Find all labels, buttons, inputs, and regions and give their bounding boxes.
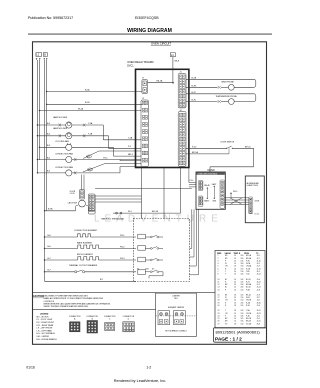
wire W-1A to connector J2 [39,107,142,111]
wire table [215,251,265,329]
bottom section divider [33,292,216,294]
svg-text:B-7D: B-7D [192,100,197,102]
svg-text:20: 20 [234,300,236,302]
connector J4 strip [178,110,186,166]
svg-text:J9-6: J9-6 [257,305,260,307]
svg-text:J8-11: J8-11 [257,313,261,315]
svg-text:BR-1A: BR-1A [246,254,252,257]
touch board connector [249,197,253,214]
UI connector P8 [198,181,203,191]
svg-text:Y-1B: Y-1B [88,134,93,136]
relay K1 [120,234,163,239]
riser board to relay section [163,168,165,219]
svg-text:3: 3 [218,260,219,262]
oven relay board label [127,60,153,67]
meat probe loop [186,76,256,90]
limiter block right [174,311,186,325]
svg-text:B-7A: B-7A [48,208,53,211]
connector C [104,316,116,331]
svg-text:LEGEND: LEGEND [40,313,49,315]
svg-text:P-10: P-10 [190,180,194,182]
svg-text:18: 18 [218,300,220,302]
outer frame [33,42,267,345]
cooling fan [39,140,142,156]
door switch circuit [186,142,254,172]
svg-text:TEMPERATURE PROBE: TEMPERATURE PROBE [216,95,238,98]
svg-text:RELAY: RELAY [204,184,210,187]
svg-text:150: 150 [241,300,244,302]
UI connector J10 [220,180,224,208]
svg-text:VERIFY PROPER OPERATION AFTER: VERIFY PROPER OPERATION AFTER SERVICING. [44,305,89,308]
connector J1 strip [178,72,186,108]
svg-text:BL-5D: BL-5D [246,287,252,289]
door lock feed wires [82,175,85,190]
svg-text:OVEN CIRCUIT: OVEN CIRCUIT [151,42,171,46]
svg-text:OR-7A: OR-7A [246,312,252,315]
svg-text:LAMP HOLDER: LAMP HOLDER [53,116,68,119]
UI to touch board wires [224,198,248,205]
svg-text:LIMITER: LIMITER [172,295,180,297]
svg-text:BR-4A: BR-4A [246,257,252,260]
svg-text:MO. - MOTOR: MO. - MOTOR [37,316,50,318]
svg-text:23: 23 [218,313,220,315]
svg-text:13: 13 [218,287,220,289]
oven relay board U1 [136,69,189,167]
title rule [28,33,272,35]
svg-text:16: 16 [234,260,236,262]
caution/legend divider [33,309,156,311]
svg-text:809126501 (A00960601): 809126501 (A00960601) [216,330,261,335]
svg-text:T.B.D.: T.B.D. [174,298,179,300]
svg-text:THERMAL CUTOUT BREAKER: THERMAL CUTOUT BREAKER [69,264,98,267]
terminal L1 [170,53,180,83]
svg-text:LOCK: LOCK [70,193,76,195]
svg-text:BP-1A: BP-1A [192,151,198,154]
bus wire B b [46,60,48,211]
svg-text:105: 105 [241,274,244,276]
svg-text:OR-7B: OR-7B [246,300,252,302]
svg-text:DISCONNECT POWER BEFORE SERVIC: DISCONNECT POWER BEFORE SERVICING UNIT. [44,295,89,297]
power relay dashed box [133,219,189,282]
connector J2 strip [141,98,148,166]
svg-text:GY-2: GY-2 [88,169,92,171]
door latch wires to riser [95,196,141,202]
terminal B [43,53,47,60]
temperature probe loop [186,92,256,105]
svg-text:PAGE : 1 / 2: PAGE : 1 / 2 [215,337,242,343]
svg-text:J2-8: J2-8 [257,289,260,291]
svg-text:CONVECTION FAN: CONVECTION FAN [55,153,73,156]
svg-text:LAMP HOLDER: LAMP HOLDER [53,127,68,130]
svg-text:B-7B: B-7B [192,85,197,87]
touch board labels [255,200,260,215]
svg-text:18: 18 [234,305,236,307]
svg-text:20: 20 [234,313,236,315]
limiter block left [158,311,170,325]
connector A [69,316,81,332]
svg-text:BAKE ELEMENT: BAKE ELEMENT [77,241,93,244]
node W-10 [230,191,237,198]
svg-text:01/16: 01/16 [26,366,35,370]
svg-text:Publication No: 5995672317: Publication No: 5995672317 [28,16,73,20]
svg-text:WIRING ERRORS CAN CAUSE IMPROP: WIRING ERRORS CAN CAUSE IMPROPER AND DAN… [44,303,111,306]
svg-text:J6-12: J6-12 [257,274,261,276]
thermal cutout breaker [44,264,136,273]
svg-text:8: 8 [218,274,219,276]
svg-text:L.F. - LEFT FRONT: L.F. - LEFT FRONT [37,328,54,330]
svg-text:150: 150 [241,313,244,315]
svg-text:R.F. - RIGHT FRONT: R.F. - RIGHT FRONT [37,322,55,324]
convection fan 2 [37,164,142,176]
svg-text:K5: K5 [152,268,154,270]
svg-text:LABEL ALL WIRES PRIOR TO DISCO: LABEL ALL WIRES PRIOR TO DISCONNECTION W… [44,297,104,300]
svg-text:OVEN RELAY BOARD: OVEN RELAY BOARD [127,60,153,64]
oven user interface U2 [196,172,225,209]
svg-text:CONVECTION FAN: CONVECTION FAN [55,166,73,169]
svg-text:NANO: NANO [204,199,210,202]
riser J2 to relay section [141,168,143,219]
svg-text:CN 5B: CN 5B [255,200,260,202]
svg-text:20: 20 [218,305,220,307]
limiter box [156,293,197,336]
svg-text:B-1A: B-1A [85,88,90,91]
lamp oven 1 [37,116,142,140]
broil element [44,254,136,261]
nano board wires down [190,209,199,274]
svg-text:B.B. - BODGE BRANCH: B.B. - BODGE BRANCH [37,338,58,341]
door lock connector [79,190,84,199]
svg-text:150: 150 [241,323,244,325]
svg-text:16: 16 [234,274,236,276]
lamp oven 2 [37,127,142,148]
svg-text:LATCH SW: LATCH SW [68,202,77,205]
UI connector P9 [198,196,203,207]
svg-text:150: 150 [241,289,244,291]
convection fan [37,151,142,163]
svg-text:L.R. - LEFT REAR: L.R. - LEFT REAR [37,329,53,332]
svg-text:14: 14 [234,289,236,291]
svg-text:B-7C: B-7C [192,92,197,94]
svg-text:Y-1A: Y-1A [128,137,133,140]
bottom return wire [45,279,137,281]
svg-text:J8-8: J8-8 [257,323,260,325]
fan hold thermostat [102,168,181,221]
UI wires to relay board [189,168,196,187]
svg-text:DOOR SWITCH: DOOR SWITCH [221,142,235,144]
svg-text:K4: K4 [137,268,139,270]
svg-text:J2: J2 [142,98,144,100]
door latch connector P5 [88,194,95,214]
convection element [44,230,136,238]
door lock labels [68,191,77,205]
svg-text:OR-3A: OR-3A [246,265,252,268]
svg-text:BR-8A: BR-8A [246,283,252,286]
svg-text:BK-7A: BK-7A [152,210,158,213]
svg-text:J1-10: J1-10 [257,260,261,262]
part number box [214,328,267,343]
svg-text:27: 27 [218,323,220,325]
svg-text:MEAT PROBE: MEAT PROBE [222,80,235,83]
svg-text:R.R. - RIGHT REAR: R.R. - RIGHT REAR [37,324,54,327]
svg-text:OVEN USER INTERFACE: OVEN USER INTERFACE [197,172,218,175]
svg-text:14: 14 [234,287,236,289]
connector J7 [142,78,174,94]
connector B [86,316,98,333]
svg-text:HOT SURFACE CONTACT: HOT SURFACE CONTACT [165,329,188,332]
svg-text:CONVECTION ELEMENT: CONVECTION ELEMENT [74,230,98,232]
svg-text:1-2: 1-2 [146,366,151,370]
svg-text:J7: J7 [142,78,144,80]
door section bottom wire [44,208,95,212]
svg-text:14: 14 [218,289,220,291]
svg-text:LIM. - LIMITER: LIM. - LIMITER [37,336,50,338]
svg-text:B-1B: B-1B [85,102,90,104]
svg-text:18: 18 [234,323,236,325]
svg-text:ELEMENT LIMITER: ELEMENT LIMITER [168,307,185,309]
svg-text:BL: BL [225,287,227,289]
aluminum glass touch board U3 [245,176,264,223]
bake element [44,241,136,249]
svg-text:200: 200 [241,287,244,289]
svg-text:Rendered by LeadVenture, Inc.: Rendered by LeadVenture, Inc. [114,379,167,383]
svg-text:Y-1A: Y-1A [88,122,93,125]
relay K3 [120,257,163,262]
UI internal labels [204,183,217,203]
connector D [123,316,135,332]
wire B-1A to relay board [46,88,142,92]
caution note [33,295,111,308]
svg-text:BROIL ELEMENT: BROIL ELEMENT [77,254,94,256]
svg-text:DVC1: DVC1 [127,64,134,67]
svg-text:UART: UART [212,183,217,186]
relay K2 [120,246,163,251]
bus wire B a [44,60,46,281]
svg-text:WIRING DIAGRAM: WIRING DIAGRAM [127,28,172,34]
svg-text:EI30EF4CQSB: EI30EF4CQSB [135,16,159,20]
terminal L2(N) [36,53,42,60]
svg-text:FAN HOLD THERMOSTAT: FAN HOLD THERMOSTAT [102,217,126,220]
svg-text:H.S. - HOT SURFACE: H.S. - HOT SURFACE [37,332,56,335]
svg-text:COOLING FAN: COOLING FAN [55,140,69,143]
bus wire L2 a [36,60,38,173]
bus wire L2 b [39,60,41,160]
svg-text:GY-2A: GY-2A [246,322,252,325]
svg-text:W-10: W-10 [233,191,237,193]
svg-text:B-7A: B-7A [192,76,197,79]
svg-text:P.L. - PILOT LIGHT: P.L. - PILOT LIGHT [37,319,54,321]
oven circuit title [151,42,172,46]
svg-text:BK-1A: BK-1A [157,80,163,83]
svg-text:LX C1: LX C1 [255,213,260,215]
wire B-1B to relay board [46,102,142,105]
relay K4 [137,268,163,278]
svg-text:105: 105 [241,305,244,307]
svg-text:BP-10: BP-10 [245,146,251,148]
svg-text:W-1A: W-1A [78,107,84,110]
door lock motor M1 [76,200,89,211]
legend [37,313,58,340]
svg-text:J3-2: J3-2 [257,300,260,302]
svg-text:105: 105 [241,260,244,262]
wire latch to UI [95,188,192,190]
svg-text:W-2: W-2 [87,156,90,158]
svg-text:CONTROLS.: CONTROLS. [44,301,56,303]
svg-text:J5-12: J5-12 [257,287,261,289]
